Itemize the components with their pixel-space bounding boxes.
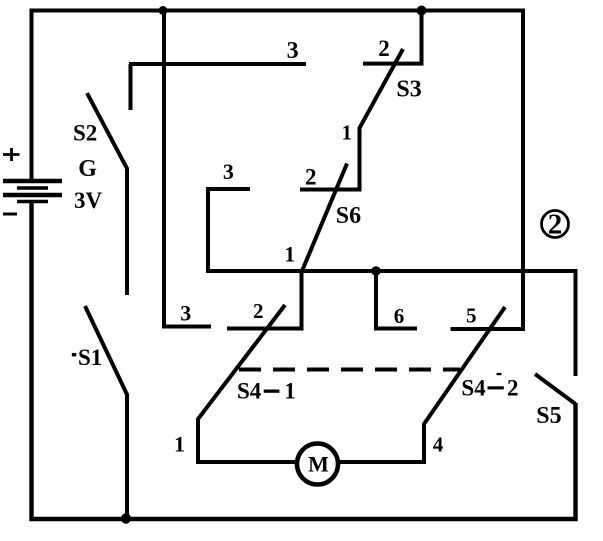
svg-text:3: 3 [223, 159, 234, 184]
svg-text:2: 2 [548, 209, 563, 241]
svg-text:1: 1 [342, 121, 353, 145]
svg-text:3: 3 [180, 301, 191, 326]
svg-text:6: 6 [394, 304, 405, 328]
svg-text:S5: S5 [536, 403, 561, 429]
svg-text:S4: S4 [461, 376, 486, 401]
svg-text:S4: S4 [237, 379, 262, 404]
svg-text:M: M [308, 452, 329, 477]
svg-text:S6: S6 [336, 203, 361, 229]
svg-text:G: G [78, 156, 97, 182]
svg-text:1: 1 [174, 432, 185, 457]
svg-text:3: 3 [287, 38, 299, 64]
svg-text:S2: S2 [73, 121, 97, 146]
svg-text:1: 1 [284, 379, 296, 404]
svg-text:1: 1 [284, 242, 295, 267]
svg-text:2: 2 [253, 299, 264, 323]
svg-text:5: 5 [466, 304, 477, 328]
svg-text:S3: S3 [396, 77, 421, 103]
svg-text:2: 2 [378, 36, 390, 61]
svg-text:2: 2 [305, 165, 317, 190]
svg-text:2: 2 [507, 376, 519, 401]
svg-text:3V: 3V [74, 188, 103, 213]
svg-text:4: 4 [433, 433, 444, 457]
svg-text:S1: S1 [78, 345, 102, 370]
